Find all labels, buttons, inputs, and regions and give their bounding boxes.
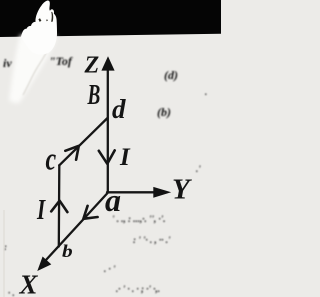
svg-text:I: I <box>36 195 46 226</box>
svg-text:(d): (d) <box>164 68 178 82</box>
svg-text:: ' '· . , ·· .': : ' '· . , ·· .' <box>133 235 171 245</box>
svg-text:c: c <box>46 142 57 177</box>
svg-text:b: b <box>62 243 73 262</box>
svg-text:. · ': . · ' <box>104 264 116 274</box>
svg-text:iv: iv <box>3 56 12 70</box>
svg-text:"Tof: "Tof <box>49 54 73 68</box>
svg-text:· .: · . <box>8 288 15 297</box>
svg-text:(b): (b) <box>157 105 171 119</box>
svg-text:I: I <box>119 144 131 171</box>
svg-text:X: X <box>19 270 39 297</box>
svg-text:a: a <box>105 182 121 218</box>
svg-text:.: . <box>205 87 207 97</box>
svg-text:.': .' <box>196 164 201 174</box>
svg-text:B: B <box>87 79 101 111</box>
svg-text:Z: Z <box>84 52 100 78</box>
svg-text:d: d <box>112 94 126 124</box>
svg-text:.· ' · . · ; ·' ·,.: .· ' · . · ; ·' ·,. <box>116 284 160 294</box>
svg-text:Y: Y <box>172 174 192 206</box>
